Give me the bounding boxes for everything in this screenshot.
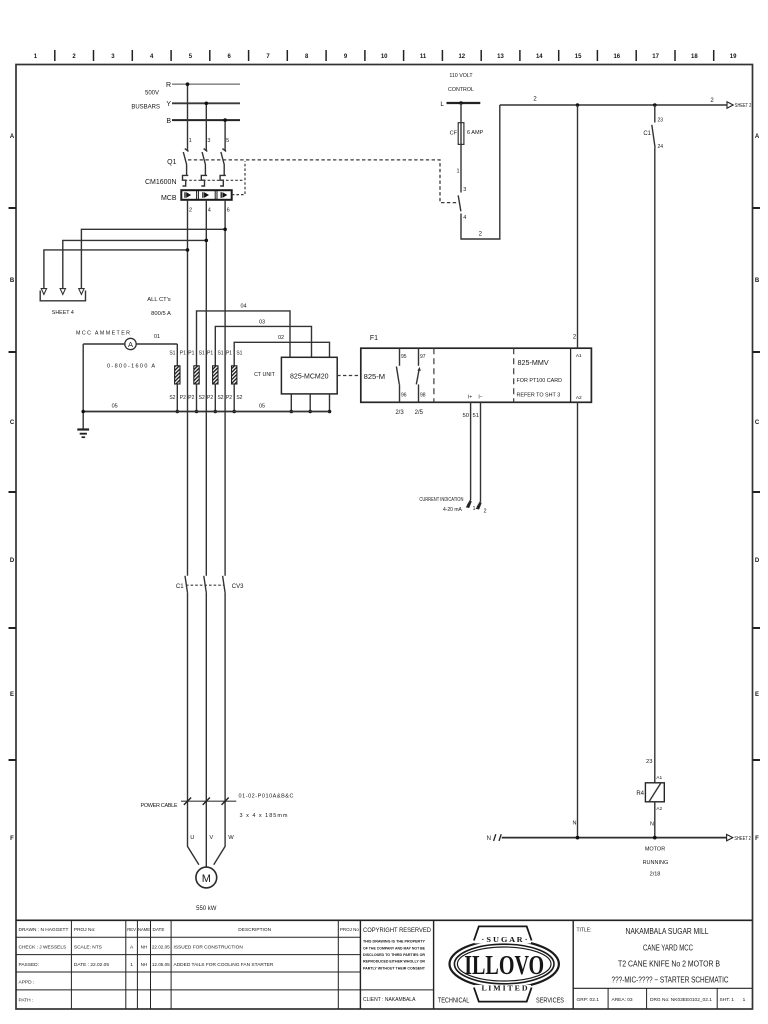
svg-text:D: D bbox=[10, 558, 15, 564]
busbar B bbox=[166, 118, 240, 125]
svg-text:A: A bbox=[130, 945, 134, 951]
svg-text:BUSBARS: BUSBARS bbox=[131, 105, 160, 111]
svg-text:SERVICES: SERVICES bbox=[536, 996, 564, 1005]
svg-text:550 kW: 550 kW bbox=[196, 906, 217, 912]
contactor C1 main pole 3 bbox=[223, 576, 226, 593]
svg-text:1: 1 bbox=[457, 169, 460, 175]
dashed trip linkage at CM1600N level bbox=[185, 179, 243, 181]
svg-text:95: 95 bbox=[401, 354, 407, 360]
label Q1 bbox=[167, 159, 176, 166]
svg-text:M: M bbox=[202, 873, 211, 885]
svg-text:Y: Y bbox=[166, 101, 171, 108]
svg-text:T2 CANE KNIFE No 2 MOTOR B: T2 CANE KNIFE No 2 MOTOR B bbox=[618, 960, 720, 969]
svg-text:A1: A1 bbox=[576, 353, 582, 359]
svg-text:PATH :: PATH : bbox=[19, 997, 34, 1003]
svg-text:11: 11 bbox=[420, 54, 427, 60]
svg-text:2/5: 2/5 bbox=[415, 410, 424, 416]
labels A1 A2 in box bbox=[576, 353, 582, 401]
svg-text:C: C bbox=[10, 420, 15, 426]
svg-text:SHEET 4: SHEET 4 bbox=[52, 310, 74, 316]
MCB trip element pole 4 bbox=[203, 192, 209, 198]
svg-text:6 AMP: 6 AMP bbox=[467, 130, 484, 136]
N terminal and ticks bbox=[487, 834, 502, 842]
svg-text:I+: I+ bbox=[468, 395, 472, 401]
svg-text:GRP: 02.1: GRP: 02.1 bbox=[577, 997, 600, 1003]
busbar R 500V bbox=[166, 82, 240, 89]
dashed internal divider 2 bbox=[513, 348, 515, 402]
power cable slash phase 1 bbox=[184, 798, 191, 805]
ILLOVO logo inner ellipse ring bbox=[454, 944, 554, 984]
svg-text:16: 16 bbox=[613, 54, 620, 60]
svg-text:S1: S1 bbox=[199, 351, 205, 357]
svg-text:S2: S2 bbox=[217, 395, 223, 401]
svg-text:DISCLOSED TO THIRD PARTIES OR: DISCLOSED TO THIRD PARTIES OR bbox=[363, 952, 425, 957]
svg-text:S1: S1 bbox=[236, 351, 242, 357]
svg-text:· S U G A R ·: · S U G A R · bbox=[482, 936, 528, 944]
svg-text:NAKAMBALA SUGAR MILL: NAKAMBALA SUGAR MILL bbox=[626, 927, 709, 936]
svg-text:13: 13 bbox=[497, 54, 504, 60]
label 01-02-P010A&B&C bbox=[239, 794, 294, 800]
svg-text:2/3: 2/3 bbox=[395, 410, 404, 416]
svg-text:DATE: DATE bbox=[153, 927, 165, 932]
svg-text:F: F bbox=[10, 836, 14, 842]
svg-text:4: 4 bbox=[208, 207, 211, 213]
svg-text:98: 98 bbox=[420, 393, 426, 399]
svg-text:5: 5 bbox=[189, 54, 193, 60]
title block left column texts bbox=[19, 927, 69, 1003]
svg-text:2: 2 bbox=[72, 54, 76, 60]
labels C1 and CV3 bbox=[176, 584, 244, 590]
svg-text:CHECK : J WESSELS: CHECK : J WESSELS bbox=[19, 945, 67, 951]
svg-text:P1: P1 bbox=[180, 351, 186, 357]
MCB trip element pole 2 bbox=[185, 192, 191, 198]
svg-text:NAME: NAME bbox=[138, 927, 150, 932]
title block proj/scale/date column bbox=[74, 927, 109, 968]
Q1 bottom terminal numbers 2 4 6 bbox=[189, 207, 230, 213]
svg-text:ISSUED FOR CONSTRUCTION: ISSUED FOR CONSTRUCTION bbox=[174, 945, 244, 951]
svg-text:CURRENT INDICATION: CURRENT INDICATION bbox=[419, 497, 463, 503]
label 02 bbox=[278, 335, 284, 341]
contact 95-96 bbox=[396, 348, 406, 402]
wire phase 1 from R busbar to Q1 bbox=[186, 82, 190, 150]
CT 3 with wire 03 to CT unit bbox=[213, 326, 312, 413]
solid divider A1/A2 terminal column bbox=[570, 348, 572, 402]
svg-text:S1: S1 bbox=[217, 351, 223, 357]
label 01 wire number bbox=[154, 334, 160, 340]
label 825-M bbox=[364, 372, 386, 381]
row letters A-F left and right margins bbox=[10, 134, 760, 842]
svg-text:01: 01 bbox=[154, 334, 160, 340]
svg-text:50: 50 bbox=[463, 413, 469, 419]
svg-text:825-MCM20: 825-MCM20 bbox=[290, 373, 329, 380]
circuit breaker Q1 pole 3 contact blade bbox=[202, 149, 207, 176]
svg-text:PROJ No: PROJ No bbox=[340, 927, 360, 932]
wire N horizontal bbox=[502, 836, 727, 840]
node N labels bbox=[573, 821, 655, 828]
svg-text:800/5 A: 800/5 A bbox=[151, 311, 171, 317]
svg-text:12: 12 bbox=[458, 54, 465, 60]
title cell texts bbox=[577, 927, 729, 984]
contactor C1 main pole 2 bbox=[204, 576, 207, 593]
wire 23 down to R4 bbox=[654, 148, 656, 783]
svg-text:500V: 500V bbox=[145, 91, 159, 97]
dashed link CT unit to 825-M bbox=[337, 375, 360, 377]
label 500V BUSBARS bbox=[131, 91, 160, 111]
svg-text:CT UNIT: CT UNIT bbox=[254, 372, 276, 378]
svg-text:10: 10 bbox=[381, 54, 388, 60]
svg-text:1: 1 bbox=[34, 54, 38, 60]
svg-text:96: 96 bbox=[401, 393, 407, 399]
svg-text:0-800-1600 A: 0-800-1600 A bbox=[107, 364, 155, 370]
svg-text:S2: S2 bbox=[169, 395, 175, 401]
wire phase 2 from Y busbar to Q1 bbox=[205, 102, 209, 151]
svg-text:05: 05 bbox=[259, 404, 265, 410]
contact 97-98 with arrow bbox=[416, 348, 425, 402]
CT 2 with wire 04 to CT unit bbox=[194, 311, 290, 413]
svg-text:DRAWN : N HAGGETT: DRAWN : N HAGGETT bbox=[19, 927, 69, 933]
title bottom row cells bbox=[577, 997, 746, 1003]
svg-text:1: 1 bbox=[189, 138, 192, 144]
svg-text:97: 97 bbox=[420, 354, 426, 360]
svg-text:18: 18 bbox=[691, 54, 698, 60]
svg-text:REV: REV bbox=[127, 927, 136, 932]
svg-text:5: 5 bbox=[226, 138, 229, 144]
power cable slash phase 3 bbox=[222, 798, 229, 805]
svg-text:L I M I T E D: L I M I T E D bbox=[482, 985, 528, 993]
svg-text:110 VOLT: 110 VOLT bbox=[449, 73, 473, 79]
svg-text:51: 51 bbox=[473, 413, 479, 419]
labels U V W bbox=[190, 835, 234, 841]
svg-text:P1: P1 bbox=[226, 351, 232, 357]
wire 50 current indication bbox=[467, 402, 472, 507]
label 825-MMV bbox=[518, 358, 549, 367]
label CURRENT INDICATION 4-20 mA bbox=[419, 497, 463, 513]
svg-text:C1: C1 bbox=[176, 584, 184, 590]
svg-text:S2: S2 bbox=[199, 395, 205, 401]
CT 1 (ammeter CT) bbox=[175, 344, 180, 413]
relay coil R4 bbox=[636, 775, 664, 812]
svg-text:ILLOVO: ILLOVO bbox=[464, 950, 544, 980]
svg-text:CLIENT : NAKAMBALA: CLIENT : NAKAMBALA bbox=[363, 997, 416, 1003]
wire fuse to Q1 aux switch bbox=[457, 144, 461, 192]
svg-text:05: 05 bbox=[112, 404, 118, 410]
MCC ammeter A1 circle bbox=[83, 338, 177, 349]
svg-text:SHT: 1: SHT: 1 bbox=[720, 997, 735, 1003]
svg-text:P2: P2 bbox=[226, 395, 232, 401]
svg-text:P2: P2 bbox=[180, 395, 186, 401]
svg-text:A: A bbox=[128, 340, 133, 349]
label FOR PT100 CARD bbox=[517, 378, 563, 384]
svg-text:AREA: 03: AREA: 03 bbox=[612, 997, 633, 1003]
copyright cell bbox=[363, 927, 431, 1003]
svg-text:17: 17 bbox=[652, 54, 659, 60]
svg-text:MCC AMMETER: MCC AMMETER bbox=[76, 331, 130, 337]
sheet 4 bracket bbox=[40, 291, 85, 301]
label F1 bbox=[370, 335, 378, 342]
svg-text:D: D bbox=[755, 558, 760, 564]
svg-text:9: 9 bbox=[344, 54, 348, 60]
top ruler column ticks and numbers 1-19 bbox=[34, 50, 737, 61]
labels 50 51 bbox=[463, 413, 479, 419]
dashed linkage from trip unit box bbox=[232, 161, 245, 195]
svg-text:B: B bbox=[10, 278, 15, 284]
open arrowhead to sheet 4 at x=43.9 bbox=[41, 289, 46, 295]
svg-text:P1: P1 bbox=[188, 351, 194, 357]
svg-text:7: 7 bbox=[266, 54, 270, 60]
svg-text:B: B bbox=[755, 278, 760, 284]
svg-text:01-02-P010A&B&C: 01-02-P010A&B&C bbox=[239, 794, 294, 800]
svg-text:02: 02 bbox=[278, 335, 284, 341]
svg-text:A2: A2 bbox=[576, 395, 582, 401]
svg-text:3: 3 bbox=[463, 187, 466, 193]
svg-text:DRG No: NK03EE0102_02.1: DRG No: NK03EE0102_02.1 bbox=[650, 997, 712, 1003]
svg-text:POWER CABLE: POWER CABLE bbox=[141, 803, 178, 809]
svg-text:PARTLY WITHOUT THEIR CONSENT: PARTLY WITHOUT THEIR CONSENT bbox=[363, 965, 425, 970]
wire 51 current indication bbox=[476, 402, 481, 509]
svg-text:F: F bbox=[755, 836, 759, 842]
dashed linkage C1 poles bbox=[186, 584, 224, 586]
power cable leader line bbox=[181, 800, 236, 802]
svg-text:NH: NH bbox=[141, 945, 148, 950]
svg-text:N: N bbox=[650, 822, 654, 828]
label 3 x 4 x 185mm bbox=[240, 813, 288, 819]
svg-text:CF: CF bbox=[450, 131, 458, 137]
wire tap to sheet 4 from phase 2 bbox=[63, 239, 208, 290]
label ALL CTs 800/5 A bbox=[147, 297, 171, 317]
logo text LIMITED bbox=[482, 985, 528, 993]
label 23 near R4 bbox=[646, 759, 652, 765]
ILLOVO logo outer ellipse bbox=[450, 925, 559, 1004]
label wire number 2 above A1 bbox=[573, 335, 577, 341]
labels 05 bbox=[112, 404, 265, 410]
svg-text:ADDED TAILS FOR COOLING FAN ST: ADDED TAILS FOR COOLING FAN STARTER bbox=[174, 962, 274, 968]
dashed internal divider 1 bbox=[433, 348, 435, 402]
wire ammeter return to 05 bbox=[82, 344, 84, 412]
svg-text:A: A bbox=[10, 134, 15, 140]
svg-text:FOR PT100 CARD: FOR PT100 CARD bbox=[517, 378, 563, 384]
svg-text:CV3: CV3 bbox=[232, 584, 244, 590]
wire phase 2 MCB to C1 bbox=[205, 200, 207, 576]
svg-text:Q1: Q1 bbox=[167, 159, 176, 166]
label MCB bbox=[161, 195, 177, 202]
svg-text:MOTOR: MOTOR bbox=[645, 846, 665, 852]
svg-text:S2: S2 bbox=[236, 395, 242, 401]
label SHEET 4 bbox=[52, 310, 74, 316]
svg-text:V: V bbox=[209, 835, 213, 841]
svg-text:4: 4 bbox=[463, 215, 466, 221]
motor M 550 kW bbox=[196, 867, 217, 888]
svg-text:REPRODUCED EITHER WHOLLY OR: REPRODUCED EITHER WHOLLY OR bbox=[363, 959, 425, 964]
svg-text:3: 3 bbox=[111, 54, 115, 60]
svg-text:2: 2 bbox=[479, 231, 483, 237]
svg-text:DESCRIPTION: DESCRIPTION bbox=[238, 927, 271, 933]
svg-text:A: A bbox=[755, 134, 760, 140]
ILLOVO logo word bbox=[464, 950, 544, 980]
svg-text:P2: P2 bbox=[188, 395, 194, 401]
svg-text:3 x 4 x 185mm: 3 x 4 x 185mm bbox=[240, 813, 288, 819]
svg-text:8: 8 bbox=[305, 54, 309, 60]
wire R4 to N bbox=[654, 802, 656, 838]
svg-text:6: 6 bbox=[228, 54, 232, 60]
wire 2 down to A1 bbox=[577, 105, 579, 348]
wire contact to control bus 2 bbox=[461, 105, 500, 239]
labels 2/3 2/5 bbox=[395, 410, 423, 416]
busbar Y bbox=[166, 101, 240, 108]
label MOTOR RUNNING 2/18 bbox=[643, 846, 669, 877]
svg-text:CANE YARD MCC: CANE YARD MCC bbox=[643, 944, 693, 953]
open arrowhead to sheet 4 at x=81.4 bbox=[79, 289, 84, 295]
svg-text:23: 23 bbox=[658, 117, 664, 123]
wire tap to sheet 4 from phase 3 bbox=[81, 228, 227, 290]
label 0-800-1600 A bbox=[107, 364, 155, 370]
svg-text:B: B bbox=[166, 118, 171, 125]
svg-text:2/18: 2/18 bbox=[650, 871, 661, 877]
CT unit 825-MCM20 box bbox=[281, 357, 337, 394]
ILLOVO logo bottom banner LIMITED bbox=[474, 988, 532, 1002]
svg-text:4-20 mA: 4-20 mA bbox=[443, 507, 463, 513]
svg-text:E: E bbox=[755, 692, 759, 698]
label CT UNIT bbox=[254, 372, 276, 378]
MCB thermal trip unit box bbox=[181, 190, 231, 200]
label 110 VOLT CONTROL bbox=[448, 73, 474, 93]
svg-text:2: 2 bbox=[710, 98, 714, 104]
ILLOVO logo top banner SUGAR bbox=[474, 926, 532, 940]
svg-text:I−: I− bbox=[478, 395, 482, 401]
svg-text:ALL CT's: ALL CT's bbox=[147, 297, 171, 303]
svg-text:N: N bbox=[487, 836, 491, 842]
svg-text:TITLE:: TITLE: bbox=[577, 927, 592, 933]
svg-text:12.05.05: 12.05.05 bbox=[152, 962, 170, 967]
circuit breaker Q1 pole 5 contact blade bbox=[221, 149, 226, 176]
Q1 pole 1 latch mechanism bbox=[183, 175, 189, 186]
wire A2 down to N bbox=[577, 402, 579, 837]
wire 05 common bbox=[81, 410, 329, 414]
label POWER CABLE bbox=[141, 803, 178, 809]
svg-text:C1: C1 bbox=[643, 131, 651, 137]
svg-text:COPYRIGHT RESERVED: COPYRIGHT RESERVED bbox=[363, 927, 431, 934]
svg-text:R4: R4 bbox=[636, 791, 644, 797]
svg-text:OF THE COMPANY AND MAY NOT BE: OF THE COMPANY AND MAY NOT BE bbox=[363, 945, 425, 950]
arrow to SHEET 2 top bbox=[727, 102, 751, 109]
circuit breaker Q1 pole 1 contact blade bbox=[183, 149, 188, 176]
svg-text:2: 2 bbox=[573, 335, 577, 341]
CT terminal labels S2 P2 row bbox=[169, 395, 242, 401]
wire phase 3 C1 to motor bbox=[214, 593, 225, 865]
svg-text:2: 2 bbox=[189, 207, 192, 213]
svg-text:L: L bbox=[440, 101, 444, 108]
title block rev/name/date cells bbox=[127, 927, 170, 968]
fuse CF 6 AMP bbox=[450, 123, 484, 145]
svg-text:S1: S1 bbox=[169, 351, 175, 357]
labels 1 2 at arrows bbox=[472, 506, 486, 514]
svg-text:A1: A1 bbox=[656, 775, 662, 781]
title block grid bbox=[16, 920, 753, 1009]
svg-text:23: 23 bbox=[646, 759, 652, 765]
svg-text:F1: F1 bbox=[370, 335, 378, 342]
svg-text:???-MIC-???? − STARTER SCHEMAT: ???-MIC-???? − STARTER SCHEMATIC bbox=[612, 976, 729, 985]
svg-text:THIS DRAWING IS THE PROPERTY: THIS DRAWING IS THE PROPERTY bbox=[363, 939, 425, 944]
svg-text:CONTROL: CONTROL bbox=[448, 87, 474, 93]
svg-text:P2: P2 bbox=[207, 395, 213, 401]
power cable slash phase 2 bbox=[203, 798, 210, 805]
svg-text:1: 1 bbox=[743, 997, 746, 1003]
svg-text:1: 1 bbox=[472, 506, 475, 512]
svg-text:E: E bbox=[10, 692, 14, 698]
svg-text:825-M: 825-M bbox=[364, 372, 386, 381]
svg-text:C: C bbox=[755, 420, 760, 426]
MCB trip element pole 6 bbox=[221, 192, 227, 198]
svg-text:APPD :: APPD : bbox=[19, 979, 35, 985]
svg-text:A2: A2 bbox=[656, 806, 662, 812]
L busbar bbox=[440, 101, 480, 108]
wire phase 1 MCB to C1 bbox=[187, 200, 189, 576]
wire phase 1 C1 to motor bbox=[188, 593, 199, 865]
label MCC AMMETER bbox=[76, 331, 130, 337]
CT 4 with wire 02 to CT unit bbox=[232, 342, 330, 413]
svg-text:SHEET 2: SHEET 2 bbox=[734, 836, 751, 842]
svg-text:REFER TO SHT 3: REFER TO SHT 3 bbox=[517, 392, 561, 398]
svg-text:14: 14 bbox=[536, 54, 543, 60]
Q1 auxiliary switch contact 3-4 bbox=[458, 187, 466, 221]
svg-text:PASSED:: PASSED: bbox=[19, 962, 39, 968]
label 04 bbox=[240, 304, 246, 310]
contactor C1 main pole 1 bbox=[185, 576, 188, 593]
ground symbol bbox=[77, 412, 89, 438]
svg-text:4: 4 bbox=[150, 54, 154, 60]
svg-text:P1: P1 bbox=[207, 351, 213, 357]
open arrowhead to sheet 4 at x=62.8 bbox=[60, 289, 65, 295]
label CM1600N bbox=[145, 179, 177, 186]
CT unit bottom stubs to wire 05 bbox=[290, 394, 332, 413]
svg-text:PROJ No:: PROJ No: bbox=[74, 927, 96, 933]
title block description column bbox=[174, 927, 360, 968]
wire phase 3 MCB to C1 bbox=[224, 200, 226, 576]
Q1 pole 3 latch mechanism bbox=[201, 175, 207, 186]
C1 auxiliary contact 23-24 bbox=[643, 105, 663, 150]
wire phase 2 C1 to motor bbox=[205, 593, 207, 867]
dashed mechanical linkage Q1 poles to control switch bbox=[188, 160, 458, 203]
svg-text:24: 24 bbox=[658, 144, 664, 150]
svg-text:15: 15 bbox=[575, 54, 582, 60]
svg-text:RUNNING: RUNNING bbox=[643, 860, 669, 866]
svg-text:22.02.05: 22.02.05 bbox=[152, 945, 170, 950]
CT terminal labels S1 P1 row bbox=[169, 351, 242, 357]
svg-text:DATE : 22.02.05: DATE : 22.02.05 bbox=[74, 962, 109, 968]
svg-text:MCB: MCB bbox=[161, 195, 177, 202]
svg-text:N: N bbox=[573, 821, 577, 827]
wire tap to sheet 4 from phase 1 bbox=[44, 248, 189, 289]
svg-text:W: W bbox=[228, 835, 234, 841]
svg-text:825-MMV: 825-MMV bbox=[518, 358, 549, 367]
svg-text:04: 04 bbox=[240, 304, 246, 310]
Q1 pole terminal numbers 1 3 5 bbox=[189, 138, 230, 144]
arrow to SHEET 2 bottom bbox=[727, 834, 751, 841]
control wire 2 horizontal bbox=[500, 97, 727, 107]
svg-text:03: 03 bbox=[259, 319, 265, 325]
svg-text:NH: NH bbox=[141, 962, 148, 967]
labels TECHNICAL SERVICES bbox=[438, 996, 564, 1005]
Q1 pole 5 latch mechanism bbox=[220, 175, 226, 186]
svg-text:2: 2 bbox=[533, 97, 537, 103]
svg-text:3: 3 bbox=[207, 138, 210, 144]
svg-text:SHEET 2: SHEET 2 bbox=[735, 103, 752, 109]
svg-text:SCALE: NTS: SCALE: NTS bbox=[74, 945, 102, 951]
svg-text:6: 6 bbox=[227, 207, 230, 213]
logo text SUGAR bbox=[482, 936, 528, 944]
label 550 kW bbox=[196, 906, 217, 912]
wire phase 3 from B busbar to Q1 bbox=[223, 118, 227, 150]
svg-text:R: R bbox=[166, 82, 171, 89]
